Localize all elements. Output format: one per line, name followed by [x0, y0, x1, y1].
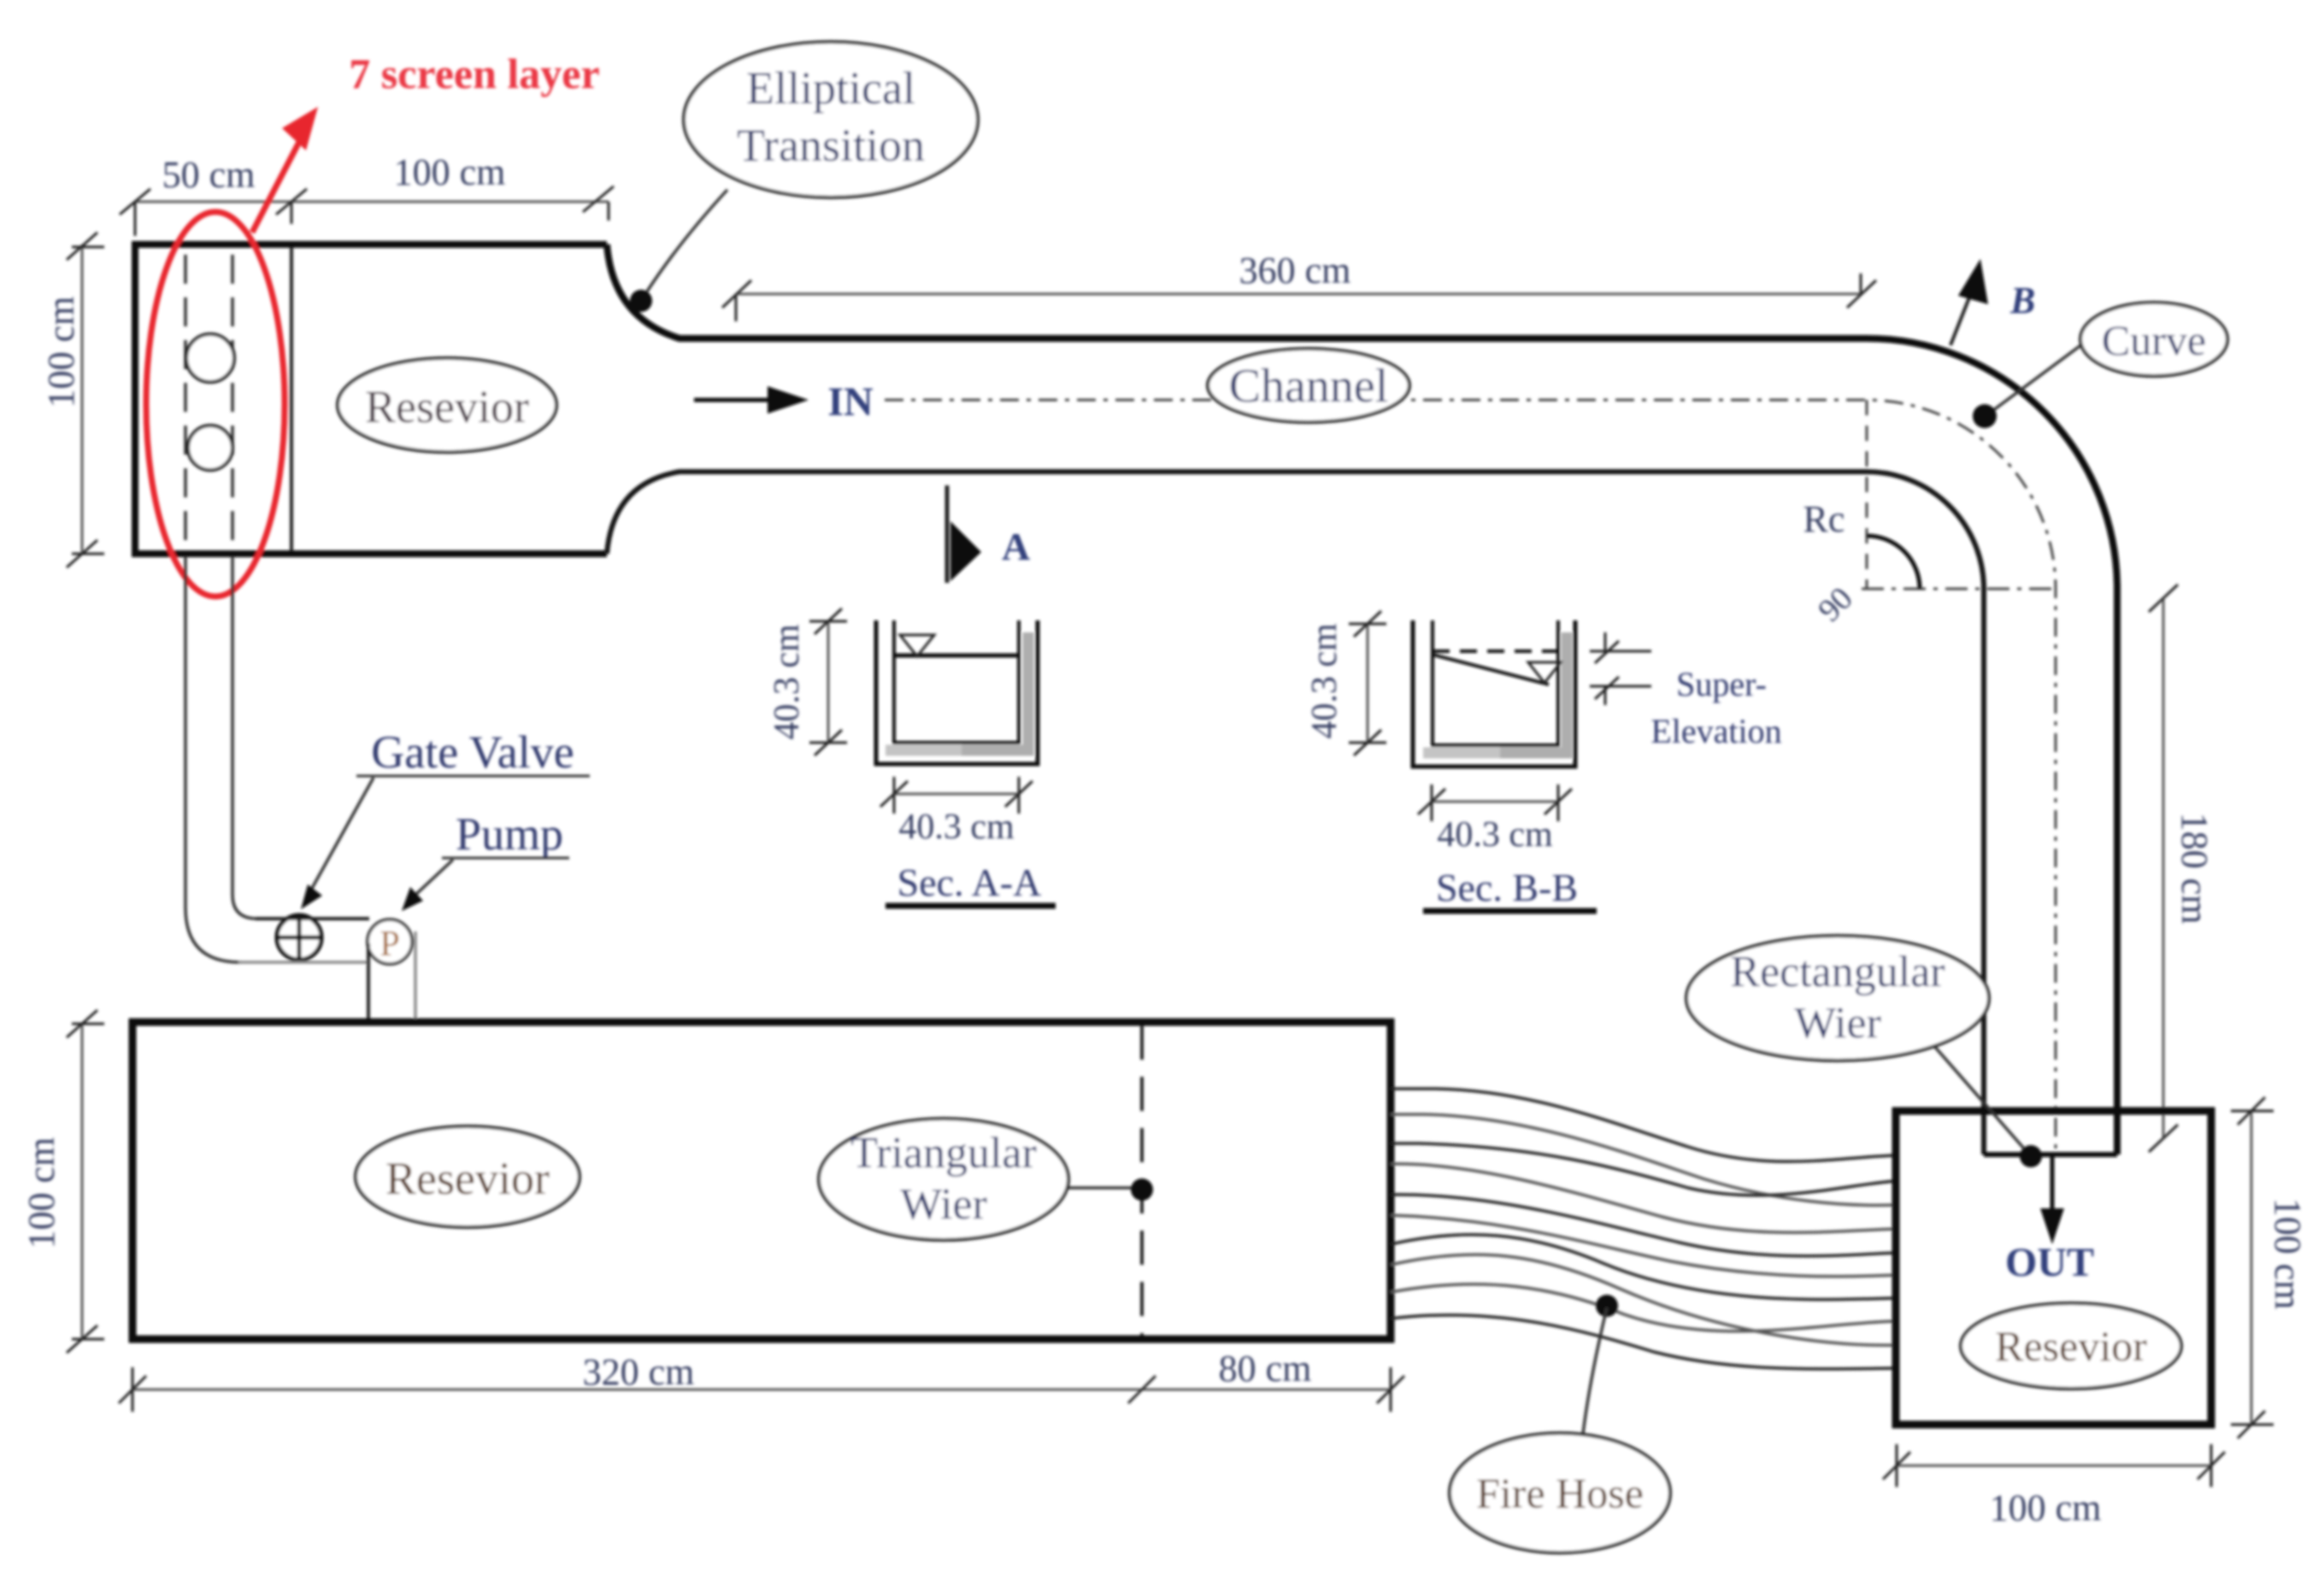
- dimension 100 cm (left of top reservoir): [67, 232, 104, 567]
- dimension 100 cm (bottom of lower-right reservoir): [1883, 1444, 2225, 1487]
- svg-text:Wier: Wier: [900, 1180, 987, 1229]
- svg-text:IN: IN: [827, 379, 874, 425]
- fire hose 5: [1391, 1195, 1896, 1256]
- Sec B-B water surface marker: [1528, 662, 1561, 683]
- label ellipse: Triangular Wier: [1067, 1186, 1135, 1190]
- radius datum dash-dot: [1862, 588, 2056, 591]
- svg-text:100 cm: 100 cm: [394, 151, 506, 193]
- label ellipse: Resevior (lower-right): [1961, 1303, 2181, 1389]
- label ellipse: Rectangular Wier: [1933, 1045, 2024, 1149]
- fire hose 7: [1391, 1235, 1896, 1300]
- svg-text:80 cm: 80 cm: [1219, 1348, 1312, 1390]
- svg-text:100 cm: 100 cm: [40, 297, 82, 408]
- fire hose 2: [1391, 1114, 1896, 1205]
- dimension 180 cm (vertical channel): [2149, 585, 2178, 1152]
- svg-text:40.3 cm: 40.3 cm: [898, 808, 1015, 847]
- fire hose 9: [1391, 1284, 1896, 1331]
- svg-text:40.3 cm: 40.3 cm: [1437, 815, 1553, 855]
- pipe inner line: [232, 556, 257, 919]
- fire hose 3: [1391, 1143, 1896, 1196]
- triangular weir dashed line: [1140, 1025, 1144, 1336]
- svg-text:Triangular: Triangular: [850, 1129, 1037, 1178]
- svg-text:50 cm: 50 cm: [162, 154, 256, 196]
- svg-text:Fire Hose: Fire Hose: [1476, 1469, 1644, 1517]
- transition node dot: [630, 290, 652, 312]
- label ellipse: Elliptical Transition: [647, 190, 727, 291]
- pipe pump to lower reservoir: [367, 943, 370, 1023]
- svg-text:Gate Valve: Gate Valve: [371, 726, 574, 778]
- pipe lower line valve to pump: [238, 961, 368, 964]
- svg-text:Wier: Wier: [1794, 999, 1881, 1048]
- Sec B-B sloped water surface: [1433, 655, 1549, 685]
- section marker B: [1950, 259, 2035, 345]
- elliptical transition top wall into channel: [607, 244, 2117, 1155]
- svg-text:Resevior: Resevior: [385, 1153, 550, 1204]
- Sec A-A left dimension 40.3 cm: [809, 608, 847, 755]
- IN flow arrow: [694, 379, 874, 425]
- dimension 100 cm (left of lower reservoir): [67, 1010, 104, 1353]
- svg-text:Rectangular: Rectangular: [1730, 948, 1945, 996]
- Rc radius dashed line: [1866, 400, 1868, 589]
- reservoir R-top (upper-left tank outline): [135, 244, 607, 554]
- label ellipse: Fire Hose: [1583, 1307, 1607, 1434]
- svg-text:Transition: Transition: [737, 120, 925, 171]
- Sec B-B channel U-shape: [1496, 632, 1567, 753]
- dimension 50 cm (top): [120, 186, 614, 236]
- Sec B-B left dimension 40.3 cm: [1349, 611, 1386, 755]
- fire hose node dot: [1596, 1295, 1618, 1317]
- super-elevation dimension: [1590, 632, 1651, 705]
- elliptical transition bottom wall into channel: [607, 472, 1984, 1155]
- pump symbol P: [368, 920, 412, 964]
- svg-text:40.3 cm: 40.3 cm: [768, 624, 807, 740]
- Sec A-A water surface marker: [900, 635, 934, 656]
- svg-text:180 cm: 180 cm: [2174, 813, 2215, 925]
- svg-text:Rc: Rc: [1803, 498, 1845, 540]
- label ellipse: Resevior (lower-left): [356, 1126, 580, 1227]
- dimension 100 cm (right of lower-right reservoir): [2231, 1097, 2274, 1438]
- OUT arrow: [2050, 1156, 2055, 1217]
- svg-text:Elliptical: Elliptical: [746, 62, 915, 114]
- svg-text:Pump: Pump: [456, 808, 563, 860]
- fire hose 10: [1391, 1315, 1896, 1369]
- red arrow to label: [252, 122, 309, 232]
- svg-text:360 cm: 360 cm: [1239, 250, 1351, 291]
- svg-text:B: B: [2009, 279, 2035, 321]
- curve node dot: [1973, 404, 1997, 428]
- section marker A: [947, 485, 1030, 583]
- Sec B-B level dashed line: [1433, 649, 1558, 653]
- gate valve symbol: [277, 915, 321, 960]
- svg-text:320 cm: 320 cm: [583, 1351, 695, 1393]
- svg-text:Sec. A-A: Sec. A-A: [897, 861, 1042, 904]
- svg-text:Sec. B-B: Sec. B-B: [1436, 866, 1578, 909]
- Sec A-A bottom dimension 40.3 cm: [880, 777, 1033, 814]
- pipe pump to lower reservoir right line: [414, 931, 417, 1023]
- pipe between valve and pump: [256, 917, 369, 920]
- Sec A-A channel U-shape: [957, 632, 1028, 750]
- dimension 360 cm (channel): [722, 273, 1876, 321]
- svg-text:100 cm: 100 cm: [21, 1137, 62, 1249]
- svg-text:100 cm: 100 cm: [2267, 1198, 2309, 1310]
- svg-text:Elevation: Elevation: [1650, 712, 1781, 750]
- svg-text:100 cm: 100 cm: [1990, 1487, 2102, 1529]
- svg-text:Curve: Curve: [2102, 316, 2206, 364]
- red ellipse around screen layer: [146, 212, 285, 596]
- screen post circle lower: [188, 426, 232, 470]
- fire hose 8: [1391, 1255, 1896, 1345]
- svg-text:Channel: Channel: [1229, 360, 1389, 413]
- svg-text:P: P: [379, 925, 399, 964]
- label ellipse: Curve: [1986, 342, 2086, 415]
- channel centerline dash-dot: [885, 400, 2056, 1149]
- fire hose 4: [1391, 1164, 1896, 1232]
- rectangular weir node dot: [2020, 1145, 2042, 1167]
- pipe from top reservoir down: [185, 556, 240, 962]
- Sec B-B bottom dimension 40.3 cm: [1418, 784, 1572, 821]
- weir crest line at channel end: [1984, 1152, 2117, 1157]
- svg-text:Resevior: Resevior: [1995, 1322, 2147, 1370]
- label ellipse: Resevior (upper-left): [338, 358, 556, 452]
- svg-text:40.3 cm: 40.3 cm: [1305, 623, 1344, 739]
- fire hose 6: [1391, 1215, 1896, 1277]
- Sec A-A water level: [894, 654, 1019, 658]
- triangular weir node dot: [1131, 1178, 1153, 1201]
- svg-text:OUT: OUT: [2005, 1240, 2094, 1285]
- svg-text:Super-: Super-: [1676, 665, 1767, 703]
- fire hose 1: [1391, 1089, 1896, 1161]
- svg-text:A: A: [1002, 525, 1030, 568]
- svg-text:7 screen layer: 7 screen layer: [349, 50, 599, 97]
- svg-text:Resevior: Resevior: [365, 381, 529, 432]
- dimension 320 cm / 80 cm (bottom): [119, 1367, 1404, 1412]
- screen layer dashed bars: [185, 255, 232, 545]
- label ellipse: Channel: [1208, 349, 1409, 422]
- screen post circle upper: [186, 334, 234, 382]
- 90 degree arc: [1867, 536, 1920, 589]
